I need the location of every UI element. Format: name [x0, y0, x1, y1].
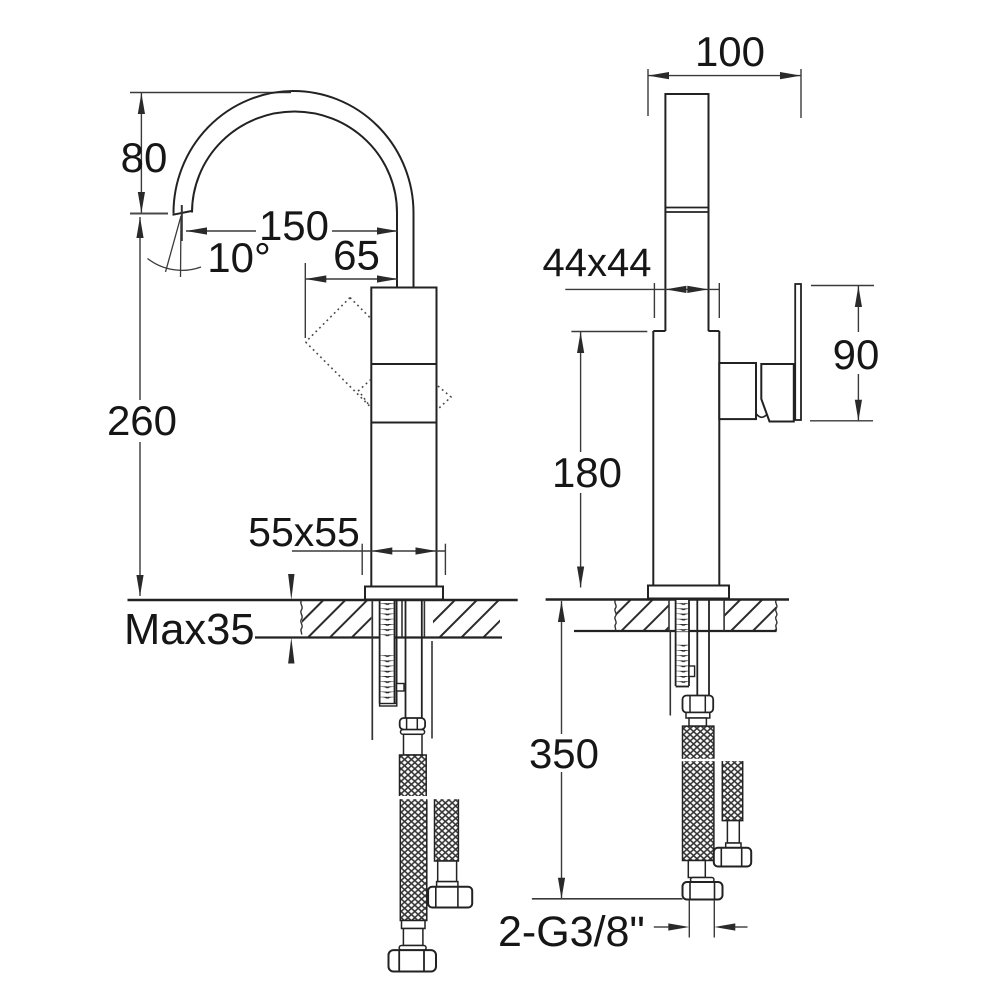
body joint line 1	[371, 363, 436, 365]
hose 1 collar side	[686, 713, 710, 719]
deck bottom line front	[255, 636, 502, 638]
hose 1 end collar front	[402, 921, 426, 929]
hose 1 neck side	[689, 718, 706, 726]
svg-text:80: 80	[121, 134, 168, 181]
dimension 350 arrows	[558, 601, 565, 899]
mounting rod right (front)	[431, 641, 433, 739]
dashed handle diamond	[306, 298, 451, 409]
base plate side	[648, 586, 729, 599]
svg-text:100: 100	[695, 28, 765, 75]
hose 1 bottom nut front	[389, 950, 437, 971]
hose 1 bottom nut side	[683, 882, 723, 900]
dimension 180 extension line	[571, 331, 647, 333]
hose bottom reference line	[532, 898, 683, 900]
dimension 44x44 arrows	[665, 286, 708, 293]
hose 2 elbow nut front	[428, 887, 472, 908]
hose 1 braid upper front	[400, 755, 427, 796]
deck bottom line side	[574, 630, 777, 632]
dimension 44x44 extension lines	[654, 283, 719, 318]
dimension 65 extension line	[304, 263, 306, 338]
deck hatch front right	[433, 601, 500, 637]
hose 2 braid side	[722, 761, 742, 821]
deck wavy edge side left	[615, 600, 616, 630]
dimension 100 arrows	[648, 72, 801, 79]
dimension 2-G3/8 arrows	[668, 923, 735, 930]
hose 1 braid lower side	[683, 761, 714, 860]
faucet body front	[371, 288, 436, 587]
hose 2 braid front	[435, 799, 459, 861]
svg-text:180: 180	[552, 449, 622, 496]
hose 1 end neck front	[403, 929, 423, 946]
Max35 arrows	[288, 574, 294, 664]
stud bottom plate front	[380, 704, 397, 707]
handle connector block	[719, 363, 756, 419]
threaded stud side	[676, 600, 689, 687]
deck top line front	[128, 599, 518, 601]
dimension 180 line	[580, 332, 582, 588]
hose 2 collar side	[726, 843, 741, 848]
10 degree arc	[148, 259, 202, 271]
body joint line 2	[371, 422, 436, 424]
svg-text:90: 90	[833, 331, 880, 378]
dimension 80 arrows	[138, 93, 145, 213]
hose 2 elbow nut side	[714, 848, 751, 867]
hose 1 pre-nut collar front	[399, 946, 426, 951]
dimension 100 extension lines	[648, 69, 801, 118]
handle lever boss	[761, 364, 794, 422]
deck wavy edge side right	[776, 600, 777, 630]
column double line	[665, 207, 708, 209]
deck top line side	[546, 598, 789, 600]
dimension 90 arrows	[855, 286, 862, 421]
deck hatch side right	[724, 600, 776, 631]
svg-text:55x55: 55x55	[248, 509, 360, 555]
hole edge lines in deck front	[401, 601, 403, 638]
dimension 65 arrows	[305, 275, 398, 282]
threaded stud front	[380, 601, 395, 704]
dimension 260 line	[139, 217, 141, 596]
svg-text:350: 350	[529, 730, 599, 777]
hose 2 neck front	[438, 861, 457, 882]
dimension 55x55 arrows	[371, 547, 436, 554]
dimension 90 extension lines	[810, 286, 874, 421]
dimension 350 line	[561, 601, 563, 899]
dimension 100 line	[648, 75, 801, 77]
top reference line	[130, 92, 291, 94]
stud bracket front	[396, 601, 398, 706]
hose 1 top nut front	[400, 718, 425, 730]
clamp tab side	[689, 666, 695, 677]
handle blade	[795, 284, 801, 420]
dimension 260 arrows	[136, 217, 143, 596]
base plate front	[365, 587, 443, 600]
svg-text:44x44: 44x44	[543, 241, 652, 285]
10 degree slanted leg	[166, 216, 182, 272]
body side	[653, 331, 719, 586]
dimension 55x55 extension lines	[362, 544, 445, 575]
hole edge lines in deck side	[668, 600, 670, 631]
svg-text:Max35: Max35	[124, 606, 255, 654]
dimension 90 line	[857, 286, 859, 421]
hose 1 top nut side	[683, 696, 714, 713]
10 degree extension line	[181, 205, 183, 241]
hose 1 collar front	[401, 730, 425, 735]
dimension 65 line	[305, 278, 398, 280]
hose 1 end collar side	[691, 878, 715, 883]
spout outlet cap	[173, 211, 192, 215]
10 degree vertical leg	[180, 216, 183, 277]
dimension 180 arrows	[577, 332, 584, 588]
svg-text:260: 260	[107, 397, 177, 444]
hose 1 end neck side	[688, 861, 705, 878]
deck break wavy edge front	[301, 601, 303, 635]
deck hatch front left	[302, 601, 371, 637]
deck hatch side left	[616, 600, 669, 631]
supply pipe side	[696, 600, 698, 696]
hose 1 braid upper side	[683, 726, 714, 759]
spout column side	[665, 94, 708, 331]
mounting rod side	[669, 631, 671, 716]
hose 1 neck front	[404, 734, 423, 755]
mounting rod left (front)	[371, 601, 373, 741]
spout arc	[173, 91, 413, 288]
clamp tab front	[397, 684, 404, 692]
svg-text:150: 150	[259, 202, 329, 249]
dimension 44x44 line	[565, 288, 719, 290]
handle pivot arc	[756, 413, 769, 418]
dimension 55x55 line	[292, 550, 445, 552]
hose 1 braid lower front	[400, 799, 427, 920]
supply pipe front	[405, 601, 407, 719]
dimension 80 line	[140, 93, 142, 213]
outlet tick	[130, 213, 168, 215]
svg-text:2-G3/8": 2-G3/8"	[498, 908, 645, 956]
dimension 150 arrows	[186, 227, 398, 234]
svg-text:65: 65	[333, 232, 380, 279]
hose 2 collar front	[437, 882, 458, 887]
dimension 2-G3/8 extension lines	[689, 900, 714, 938]
dimension 150 line	[186, 230, 398, 232]
hose 2 neck side	[727, 821, 739, 843]
